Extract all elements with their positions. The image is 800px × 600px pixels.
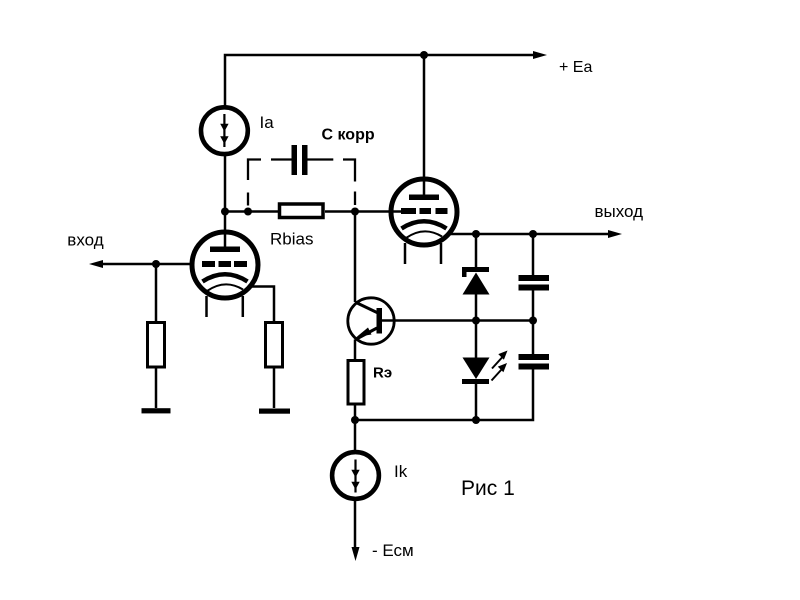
node: output / C1	[529, 230, 537, 238]
arrowhead input	[89, 260, 103, 268]
capacitor C2	[519, 354, 550, 370]
resistor R2 (cathode)	[266, 323, 283, 368]
svg-text:Ia: Ia	[260, 113, 275, 132]
wire: output to C1	[532, 234, 535, 275]
triode V1	[192, 212, 258, 318]
svg-text:Рис 1: Рис 1	[461, 477, 515, 500]
wire: Rbias to grid node	[325, 210, 355, 213]
resistor R1 (grid leak)	[148, 323, 165, 368]
wire: R1 to ground	[155, 366, 158, 408]
node: top rail / V2 anode	[420, 51, 428, 59]
wire: C1 to middle rail	[532, 291, 535, 321]
LED D2	[462, 358, 490, 385]
svg-text:+ Ea: + Ea	[559, 59, 592, 76]
svg-text:С корр: С корр	[322, 127, 375, 144]
ground (left)	[142, 408, 171, 413]
wire: middle rail to C2	[532, 321, 535, 355]
wire: node to Rbias	[225, 210, 278, 213]
current source Ik	[332, 452, 379, 499]
node: bottom rail / Ik	[351, 416, 359, 424]
wire: Ia to anode node	[224, 154, 227, 212]
svg-text:- Есм: - Есм	[372, 541, 414, 560]
wire: C2 to bottom rail	[355, 370, 533, 421]
wire: Q1 emitter to Re	[354, 340, 357, 360]
transistor Q1	[348, 298, 394, 344]
wire: output rail	[449, 233, 609, 236]
node: middle rail / C2	[529, 317, 537, 325]
current source Ia	[201, 107, 248, 154]
arrowhead +Ea	[533, 51, 547, 59]
resistor Rbias	[280, 204, 324, 218]
wire: Ik to -Ecm	[354, 499, 357, 549]
arrowhead -Ecm	[352, 547, 360, 561]
wire (dashed): C corr left horizontal	[271, 158, 292, 160]
wire (dashed): C corr right horizontal	[307, 158, 333, 160]
node: V2 grid junction	[351, 208, 359, 216]
wire: node to R1	[155, 264, 158, 322]
wire: middle rail to LED	[475, 321, 478, 359]
capacitor C1	[519, 275, 550, 291]
zener diode D1	[462, 267, 490, 295]
wire: output to zener	[475, 234, 478, 267]
node: bottom rail / LED	[472, 416, 480, 424]
node: input / R1	[152, 260, 160, 268]
ground (right)	[259, 409, 290, 414]
node: middle rail / zener	[472, 317, 480, 325]
node: C corr left tap	[244, 208, 252, 216]
svg-text:вход: вход	[67, 231, 103, 250]
svg-text:Rbias: Rbias	[270, 230, 313, 249]
wire: V2 grid lead	[355, 210, 402, 213]
wire: LED to bottom rail	[475, 384, 478, 420]
wire (dashed): C corr right vertical	[343, 160, 355, 206]
node: output / zener	[472, 230, 480, 238]
wire: +Ea top rail	[225, 55, 535, 108]
triode V2	[391, 55, 457, 264]
wire: R2 to ground	[273, 366, 276, 408]
wire: Re to bottom node	[354, 406, 357, 421]
wire (dashed): C corr left vertical	[248, 160, 261, 206]
wire: V1 cathode lead	[250, 287, 274, 323]
wire: grid node to Q1 collector	[354, 212, 357, 303]
svg-text:Ik: Ik	[394, 462, 408, 481]
node: V1 anode junction	[221, 208, 229, 216]
resistor Re	[348, 361, 364, 405]
svg-text:Rэ: Rэ	[373, 365, 392, 382]
wire: input	[101, 263, 190, 266]
capacitor C corr	[292, 145, 308, 175]
wire: middle rail (base)	[382, 319, 533, 322]
wire: node to Ik	[354, 420, 357, 452]
wire: zener to middle rail	[475, 294, 478, 321]
arrowhead output	[608, 230, 622, 238]
svg-text:выход: выход	[595, 202, 644, 221]
LED arrows	[492, 351, 508, 381]
